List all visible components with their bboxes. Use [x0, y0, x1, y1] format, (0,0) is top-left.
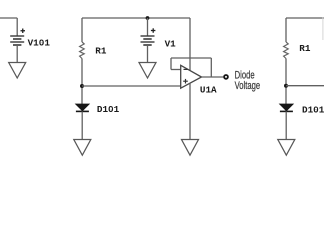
wire D101 cathode to ground — [81, 111, 83, 139]
wire feedback right leg — [210, 58, 212, 77]
svg-text:R1: R1 — [299, 43, 311, 54]
resistor R1 — [80, 42, 85, 59]
plus polarity mark V101 — [21, 29, 26, 34]
svg-text:D101: D101 — [97, 104, 120, 115]
diode D101 — [76, 104, 90, 111]
node junction dot right circuit — [284, 84, 288, 88]
diode D101 right circuit — [280, 104, 294, 111]
wire op-amp V+ supply drop — [189, 18, 191, 71]
wire V101 top lead — [16, 18, 18, 36]
wire inverting input — [171, 69, 181, 71]
wire R1 bottom to diode — [81, 59, 83, 105]
node junction dot R1/D101/op-amp input — [80, 84, 84, 88]
op-amp minus input mark — [184, 68, 188, 70]
wire right diode to ground — [285, 111, 287, 139]
plus polarity mark V1 — [151, 28, 156, 33]
svg-text:U1A: U1A — [200, 84, 217, 95]
wire V101 bottom lead — [16, 45, 18, 63]
label Diode Voltage — [235, 69, 261, 92]
svg-text:R1: R1 — [95, 45, 107, 56]
wire feedback top — [171, 57, 211, 59]
svg-text:V1: V1 — [165, 38, 177, 49]
ground under V101 — [9, 63, 26, 79]
faint partial element at right edge — [322, 18, 324, 41]
node junction dot V1 on top rail — [146, 16, 150, 20]
op-amp U1A triangle — [181, 65, 202, 88]
ground right circuit — [278, 140, 295, 156]
battery V1 — [141, 36, 155, 45]
svg-text:Voltage: Voltage — [235, 80, 261, 92]
wire feedback left leg — [170, 58, 172, 70]
wire right junction to edge — [286, 85, 324, 87]
wire V1 top lead — [147, 18, 149, 36]
wire top rail right circuit — [286, 17, 324, 19]
ground under V1 — [139, 63, 156, 79]
ground under op-amp — [182, 140, 199, 156]
ground under D101 — [74, 140, 91, 156]
svg-text:D101: D101 — [302, 104, 324, 115]
resistor R1 right circuit — [284, 42, 289, 59]
wire right R1 bottom to diode — [285, 59, 287, 105]
wire op-amp V- to ground — [189, 83, 191, 140]
wire top rail middle — [82, 17, 190, 19]
op-amp plus input mark — [183, 79, 188, 84]
wire junction to op-amp noninverting input — [82, 85, 181, 87]
wire right R1 top lead — [285, 18, 287, 42]
terminal Diode Voltage — [224, 75, 228, 79]
wire op-amp output — [202, 76, 224, 78]
wire left top horizontal — [0, 17, 17, 19]
wire R1 top lead — [81, 18, 83, 42]
zero glyph dot masks — [41, 41, 317, 110]
svg-text:V101: V101 — [28, 38, 51, 49]
wire V1 bottom lead — [147, 45, 149, 63]
battery V101 — [10, 36, 24, 45]
